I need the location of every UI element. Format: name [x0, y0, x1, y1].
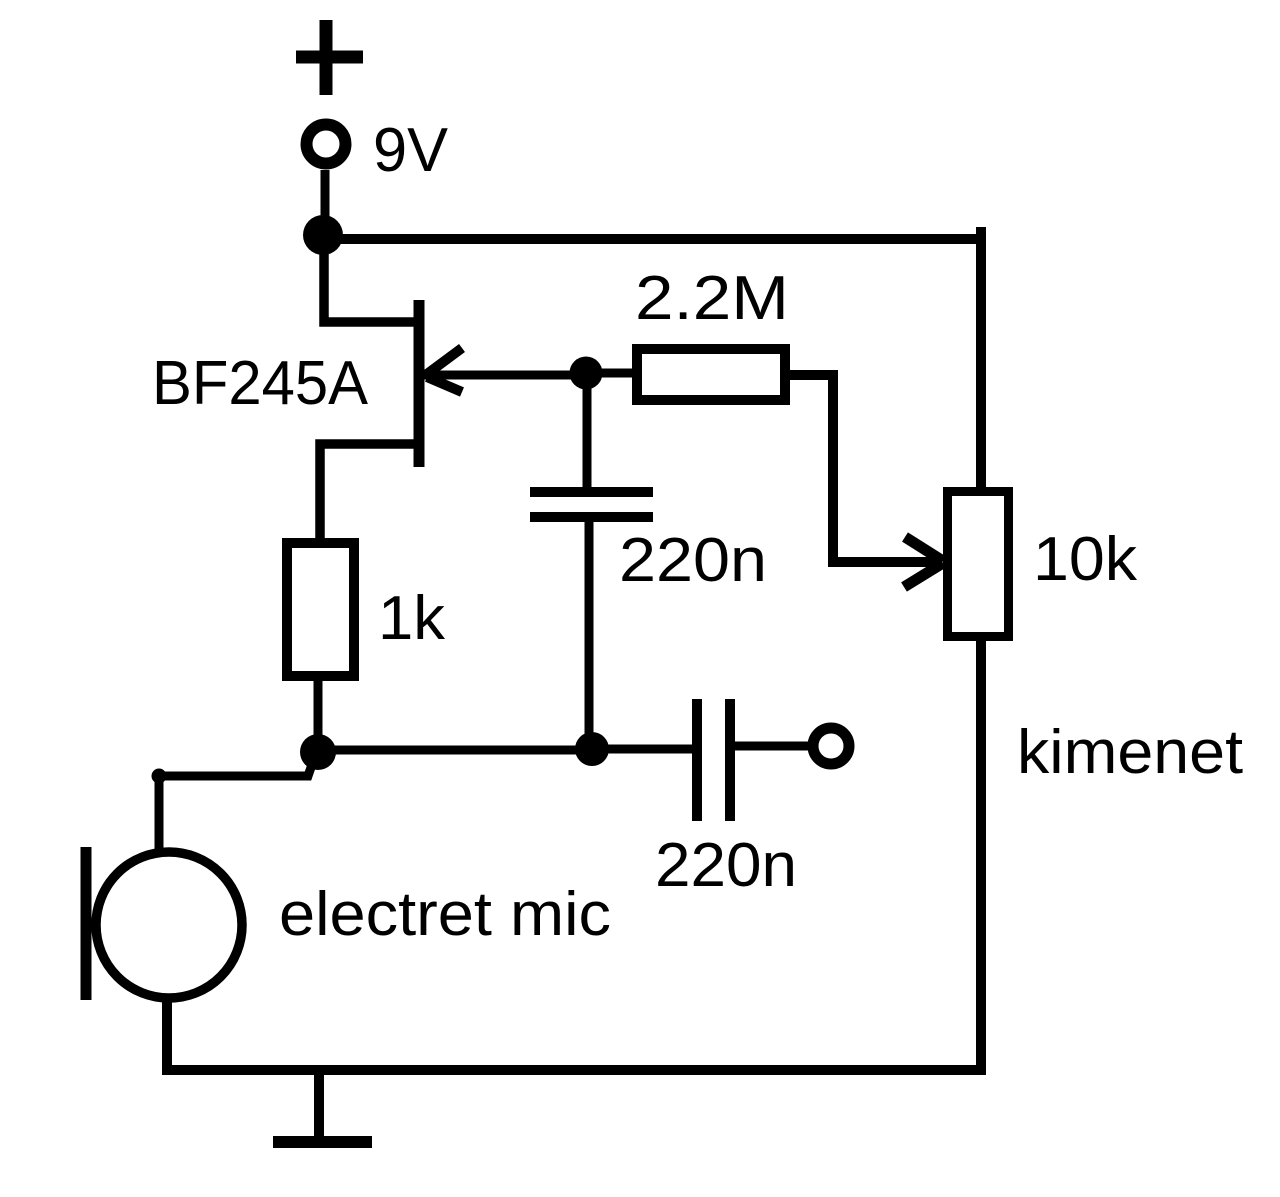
right rail wire down to potentiometer — [976, 227, 986, 495]
potentiometer P1 10k body — [948, 492, 1009, 637]
ground stub wire — [314, 1070, 324, 1140]
capacitor C2 plates — [697, 699, 730, 821]
node D output junction dot — [575, 732, 609, 766]
capacitor C1 bottom lead wire — [585, 519, 594, 751]
transistor Q1 gate wire — [424, 371, 586, 380]
capacitor C2 left lead wire — [592, 745, 697, 754]
wire terminal to node — [321, 170, 330, 236]
svg-text:10k: 10k — [1033, 525, 1138, 594]
wire microphone to ground rail and bottom rail up right side — [167, 637, 981, 1070]
svg-text:9V: 9V — [373, 116, 449, 185]
svg-text:electret mic: electret mic — [279, 880, 611, 949]
top supply rail wire — [322, 234, 981, 244]
9V terminal circle — [307, 125, 346, 164]
wire R1 to potentiometer wiper — [790, 375, 938, 562]
microphone MK1 diaphragm bar — [81, 847, 92, 1000]
node C source junction dot — [300, 734, 336, 770]
svg-text:220n: 220n — [619, 526, 767, 595]
transistor Q1 channel bar — [414, 300, 425, 467]
svg-text:kimenet: kimenet — [1017, 718, 1243, 787]
battery plus symbol — [296, 20, 363, 95]
capacitor C1 plates — [530, 492, 653, 517]
wire gate node to resistor R1 — [586, 369, 637, 378]
wire source node to output node — [318, 746, 592, 755]
resistor R2 bottom lead wire — [314, 676, 323, 752]
resistor R1 2.2M body — [637, 349, 785, 400]
svg-text:220n: 220n — [655, 831, 797, 900]
wire node C to microphone — [159, 753, 316, 852]
node A junction dot — [303, 215, 343, 255]
capacitor C2 right lead wire — [730, 742, 810, 751]
svg-text:2.2M: 2.2M — [635, 264, 789, 333]
node B gate junction dot — [570, 357, 603, 390]
potentiometer wiper arrowhead — [904, 537, 943, 587]
svg-text:1k: 1k — [378, 584, 446, 653]
transistor Q1 source lead wire — [320, 444, 414, 548]
svg-text:BF245A: BF245A — [152, 349, 369, 418]
transistor Q1 BF245A drain lead wire — [324, 236, 414, 322]
resistor R2 1k body — [287, 543, 354, 676]
transistor Q1 gate arrowhead — [427, 348, 462, 392]
microphone MK1 body circle — [96, 852, 242, 998]
microphone wire end dot — [152, 769, 167, 784]
ground symbol bar — [273, 1136, 372, 1148]
capacitor C1 top lead wire — [583, 373, 592, 490]
output terminal circle — [813, 728, 849, 764]
